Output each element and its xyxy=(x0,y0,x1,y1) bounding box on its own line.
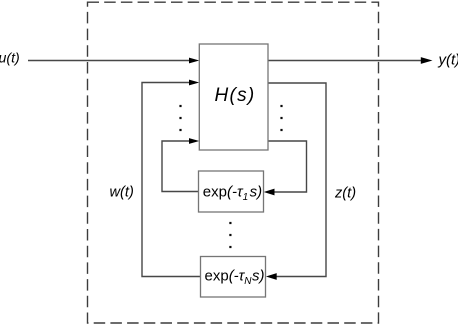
svg-text:y(t): y(t) xyxy=(438,52,458,69)
wire y(t) output xyxy=(268,60,423,62)
svg-text:exp(-τ1s): exp(-τ1s) xyxy=(203,184,262,204)
wire w_N feedback (expN output to H input row2) xyxy=(142,83,201,277)
delay block exp(-tau_1 s) xyxy=(199,171,264,212)
arrowhead into H(s) pin u xyxy=(189,58,199,64)
svg-text:u(t): u(t) xyxy=(0,51,20,67)
wire z_1 (H output row3 to exp1 input) xyxy=(268,141,307,192)
ellipsis dots between delay blocks xyxy=(229,222,231,224)
dashed system boundary xyxy=(88,2,379,323)
wire z_N (H output row2 to expN input) xyxy=(268,83,326,277)
ellipsis dots left of H(s) inputs xyxy=(179,105,181,107)
svg-text:w(t): w(t) xyxy=(110,185,134,201)
arrowhead y(t) xyxy=(421,57,433,64)
arrowhead into expN xyxy=(266,273,277,280)
arrowhead into H(s) pin w_N xyxy=(189,80,199,86)
svg-text:exp(-τNs): exp(-τNs) xyxy=(205,267,265,287)
arrowhead into exp1 xyxy=(264,189,275,196)
svg-text:z(t): z(t) xyxy=(334,185,356,201)
wire u(t) input xyxy=(28,60,190,62)
arrowhead into H(s) pin w_1 xyxy=(189,138,199,144)
block H(s) xyxy=(199,44,268,150)
svg-text:H(s): H(s) xyxy=(214,85,255,106)
ellipsis dots right of H(s) outputs xyxy=(280,105,282,107)
delay block exp(-tau_N s) xyxy=(201,257,266,298)
wire w_1 feedback (exp1 output to H input row3) xyxy=(162,141,199,192)
